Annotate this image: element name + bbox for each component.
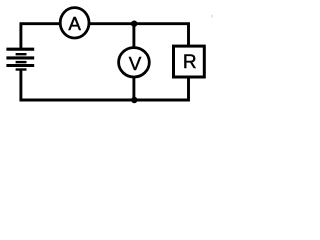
svg-text:A: A (68, 13, 81, 34)
svg-text:V: V (129, 53, 142, 74)
svg-text:R: R (183, 52, 197, 73)
